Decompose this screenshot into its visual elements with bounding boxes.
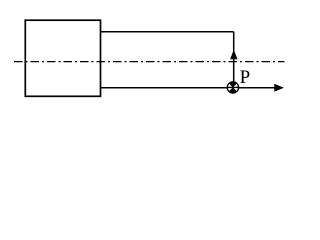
rightward force arrowhead: [274, 84, 284, 92]
svg-text:P: P: [240, 67, 251, 88]
upward force arrowhead: [230, 50, 237, 59]
beam top edge: [101, 31, 234, 33]
fixed support block: [25, 20, 100, 96]
beam bottom edge / horizontal force shaft: [101, 87, 276, 89]
beam right edge / vertical shaft at P: [233, 32, 235, 88]
centerline (dash-dot axis): [14, 61, 285, 63]
point symbol at P (circle with filled sectors): [227, 82, 239, 94]
